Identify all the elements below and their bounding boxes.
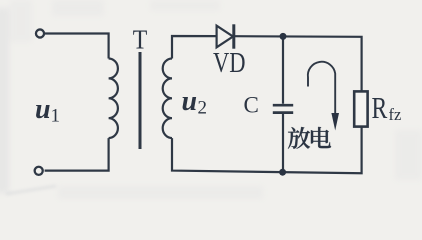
wire capacitor branch top — [282, 36, 284, 103]
svg-text:fz: fz — [389, 105, 402, 124]
discharge arrowhead — [331, 113, 339, 131]
diode VD — [217, 24, 234, 48]
svg-text:1: 1 — [51, 106, 61, 127]
capacitor C plates — [273, 105, 293, 112]
winding primary L1 — [109, 59, 118, 139]
svg-text:T: T — [133, 25, 148, 55]
svg-text:u: u — [35, 94, 51, 125]
resistor R box — [354, 91, 367, 126]
svg-text:VD: VD — [213, 47, 246, 79]
winding secondary L2 — [163, 59, 172, 139]
svg-text:R: R — [372, 90, 388, 125]
discharge arrow arc — [308, 62, 335, 115]
wire diode cathode to top-right corner — [235, 36, 362, 91]
junction dot top — [280, 33, 287, 40]
svg-text:u: u — [182, 86, 198, 117]
transformer core T — [139, 52, 142, 149]
wire resistor bottom to bottom rail — [172, 127, 362, 174]
svg-text:C: C — [244, 93, 259, 118]
terminal top-left — [36, 29, 44, 37]
junction dot bottom — [279, 169, 286, 176]
terminal bottom-left — [35, 167, 43, 175]
wire capacitor branch bottom — [282, 114, 284, 172]
wire top-left — [45, 34, 109, 59]
svg-text:2: 2 — [198, 98, 208, 119]
label fangdian (discharge) — [288, 127, 331, 149]
wire primary bottom — [45, 138, 109, 171]
wire secondary top to diode anode — [172, 36, 217, 59]
